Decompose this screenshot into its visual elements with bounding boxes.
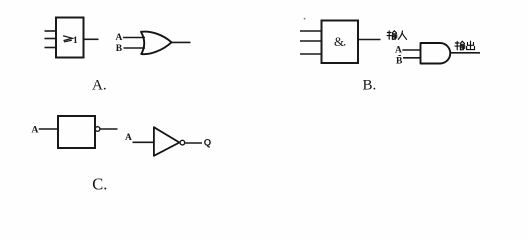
svg-text:A: A (116, 33, 123, 43)
svg-text:A: A (32, 125, 39, 135)
svg-text:C.: C. (92, 174, 107, 193)
svg-text:A: A (395, 45, 402, 55)
svg-text:Q: Q (204, 137, 211, 148)
svg-text:B.: B. (363, 77, 377, 93)
svg-text:&: & (334, 34, 344, 49)
svg-text:1: 1 (73, 36, 78, 46)
svg-text:B: B (396, 56, 403, 66)
svg-text:A: A (125, 133, 132, 143)
svg-text:B: B (116, 44, 123, 54)
svg-text:A.: A. (92, 77, 107, 93)
